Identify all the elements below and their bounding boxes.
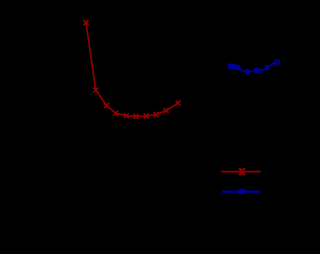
- red marker 6: [134, 114, 139, 119]
- blue marker 5: [236, 65, 240, 70]
- blue end bar 2: [278, 59, 280, 65]
- red marker 3: [104, 103, 109, 108]
- legend blue sample line: [222, 191, 261, 193]
- blue end bar 1: [275, 59, 277, 66]
- legend blue sample marker: [238, 189, 242, 195]
- legend blue sample marker second star: [241, 189, 245, 195]
- blue series line: [229, 62, 275, 72]
- red marker 4: [113, 111, 118, 116]
- blue marker 4: [234, 65, 238, 70]
- blue marker 3: [232, 64, 236, 69]
- red marker 10: [176, 101, 181, 106]
- red marker 8: [154, 112, 159, 117]
- blue marker 6: [245, 69, 250, 74]
- blue marker 9: [265, 65, 269, 70]
- red marker 5: [124, 113, 129, 118]
- blue marker 8: [256, 68, 260, 73]
- legend red sample marker: [239, 168, 245, 175]
- red series line: [86, 23, 178, 117]
- legend red sample line: [221, 171, 260, 173]
- red marker 7: [144, 114, 149, 119]
- red marker 2: [93, 88, 98, 93]
- red marker 1: [84, 20, 89, 25]
- blue series markers: [227, 63, 269, 74]
- blue marker 1: [227, 63, 231, 68]
- blue marker 7: [254, 68, 258, 73]
- red series markers: [84, 20, 181, 119]
- blue marker 2: [229, 64, 233, 69]
- red marker 9: [164, 108, 169, 113]
